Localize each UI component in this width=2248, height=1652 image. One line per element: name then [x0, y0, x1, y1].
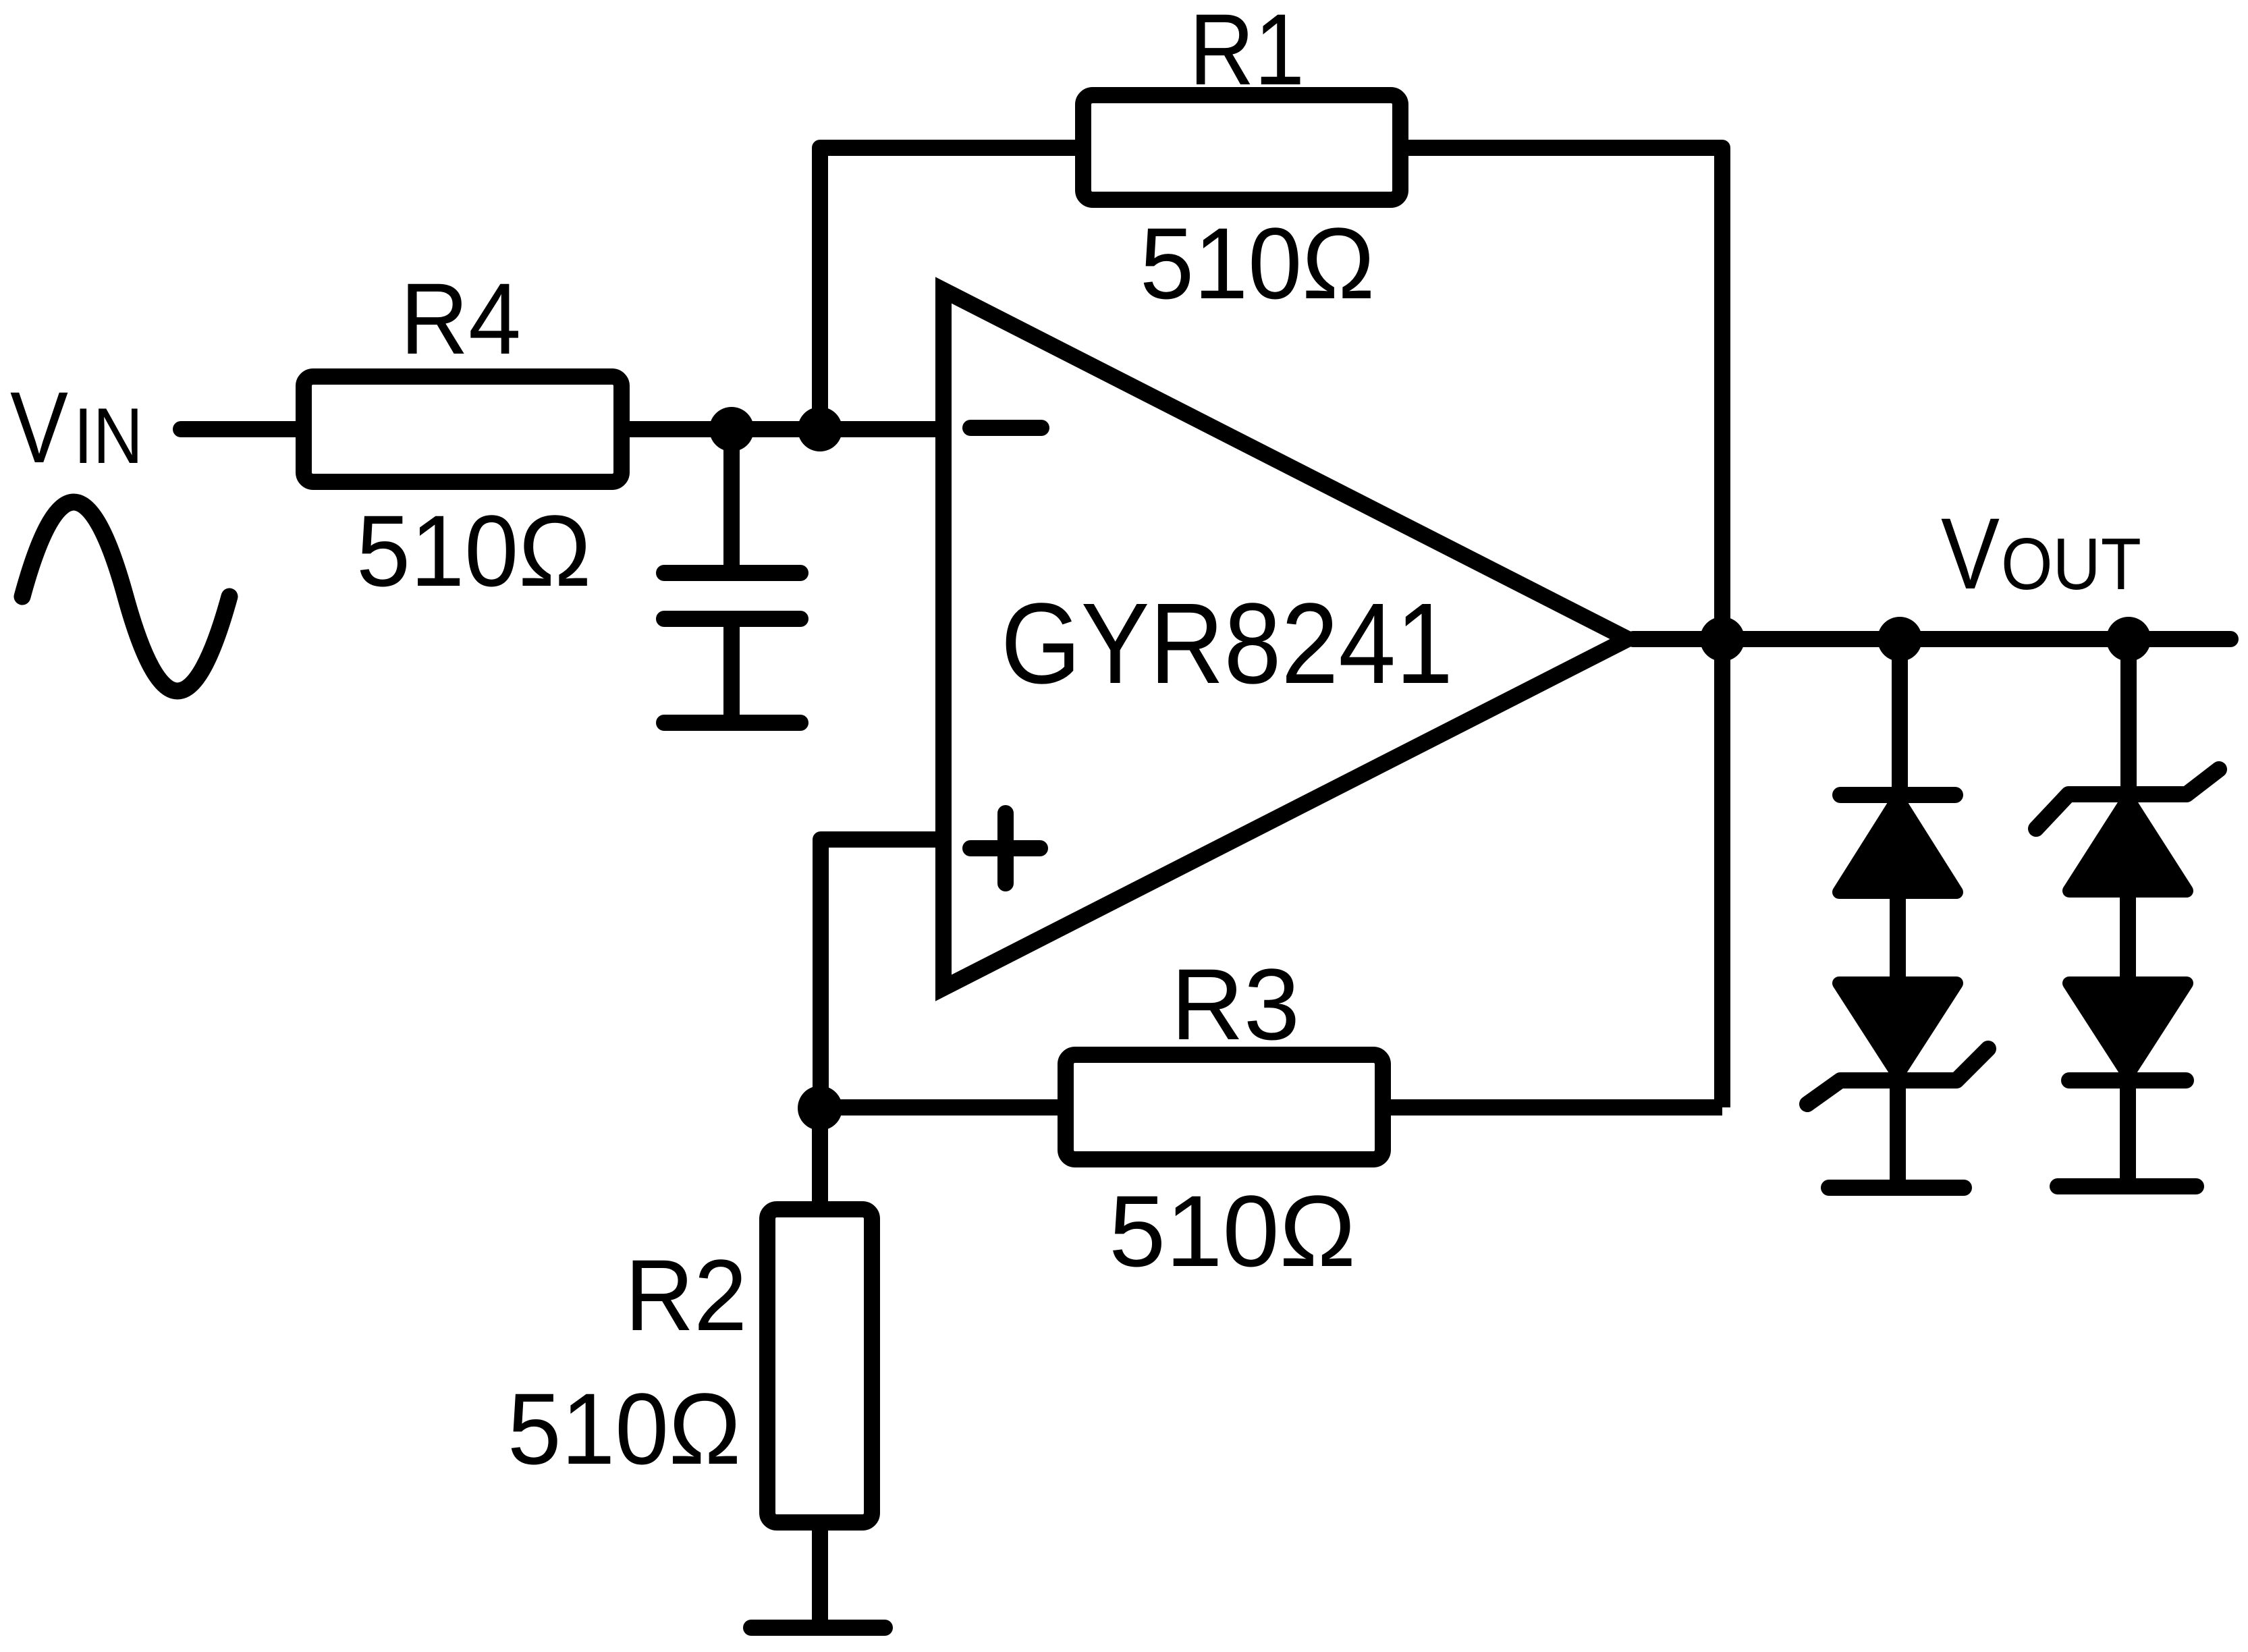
svg-text:510Ω: 510Ω — [1109, 1174, 1356, 1288]
svg-text:OUT: OUT — [2001, 523, 2141, 605]
svg-text:GYR8241: GYR8241 — [1001, 580, 1453, 708]
svg-text:R4: R4 — [400, 262, 521, 375]
svg-text:R1: R1 — [1189, 0, 1305, 106]
svg-text:510Ω: 510Ω — [356, 494, 591, 607]
svg-text:510Ω: 510Ω — [508, 1372, 741, 1485]
svg-text:510Ω: 510Ω — [1140, 206, 1375, 320]
svg-text:IN: IN — [74, 391, 143, 480]
svg-text:R3: R3 — [1171, 947, 1300, 1061]
svg-text:V: V — [10, 370, 68, 484]
svg-text:V: V — [1941, 497, 2000, 610]
svg-text:R2: R2 — [625, 1238, 747, 1352]
